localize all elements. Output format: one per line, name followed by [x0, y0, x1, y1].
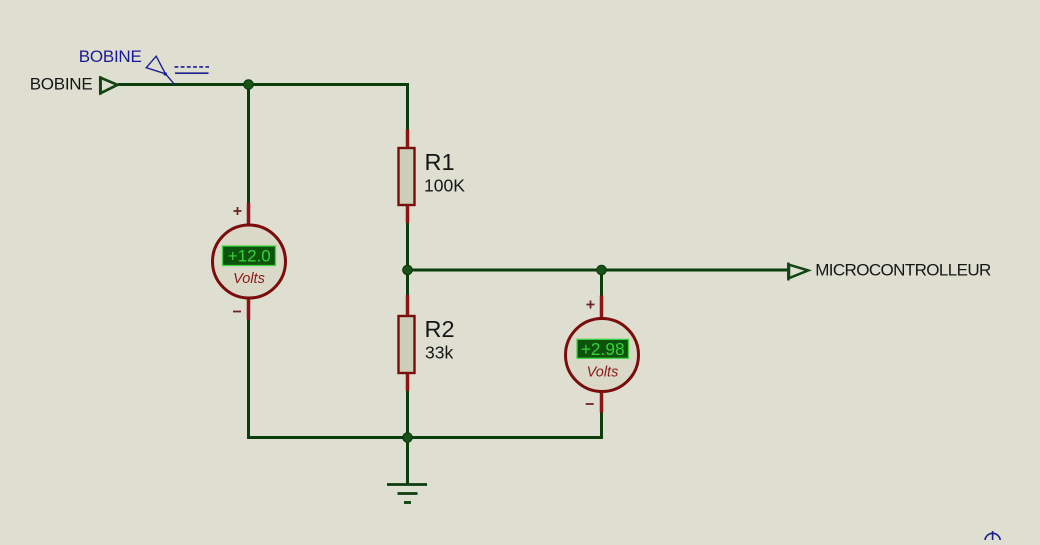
probe symbol [146, 56, 209, 84]
voltmeter V2 leads [600, 296, 604, 413]
ground [387, 485, 427, 503]
svg-text:+2.98: +2.98 [581, 339, 625, 359]
wire: meter V1 top branch from junction down [247, 85, 250, 204]
voltmeter V2 plus sign [587, 301, 595, 309]
svg-text:MICROCONTROLLEUR: MICROCONTROLLEUR [815, 261, 991, 280]
wire: meter V2 bottom leg [600, 412, 603, 440]
wire: bottom horizontal rail [249, 436, 602, 439]
voltmeter V1 body [213, 225, 286, 298]
resistor R1 [399, 148, 415, 205]
voltmeter V2 body [566, 319, 639, 392]
origin marker (bottom right, clipped) [985, 531, 1000, 545]
wire: meter V1 bottom leg [247, 319, 250, 440]
voltmeter V1 minus sign [233, 311, 241, 313]
voltmeter V2 minus sign [586, 403, 594, 405]
node junction bottom [403, 433, 413, 443]
node junction middle-right [597, 265, 607, 275]
resistor R1 leads [406, 130, 410, 224]
voltmeter V1 plus sign [234, 207, 242, 215]
terminal BOBINE input [100, 76, 117, 94]
voltmeter V2 display [577, 339, 629, 358]
wire: ground stem [406, 438, 409, 485]
terminal MICROCONTROLLEUR output [788, 263, 808, 281]
wire: between R1 and R2 [406, 222, 409, 296]
svg-text:+12.0: +12.0 [228, 246, 271, 265]
svg-text:Volts: Volts [233, 271, 265, 287]
resistor R2 leads [406, 295, 410, 391]
wire: meter V2 top branch [600, 270, 603, 296]
svg-text:BOBINE: BOBINE [79, 47, 142, 66]
wire: below R2 to bottom rail [406, 390, 409, 438]
svg-text:R2: R2 [425, 316, 455, 342]
svg-text:R1: R1 [425, 149, 455, 175]
voltmeter V1 display [223, 246, 276, 266]
voltmeter V1 leads [247, 203, 251, 320]
wire: top horizontal BOBINE to R1 branch corner [118, 85, 408, 131]
node junction top-left [244, 80, 254, 90]
wire: middle horizontal to MICROCONTROLLEUR terminal [408, 269, 789, 272]
svg-text:100K: 100K [424, 175, 465, 195]
svg-text:Volts: Volts [587, 365, 619, 381]
node junction middle [403, 265, 413, 275]
svg-text:33k: 33k [425, 342, 453, 362]
svg-text:BOBINE: BOBINE [30, 75, 93, 94]
resistor R2 [399, 316, 415, 373]
